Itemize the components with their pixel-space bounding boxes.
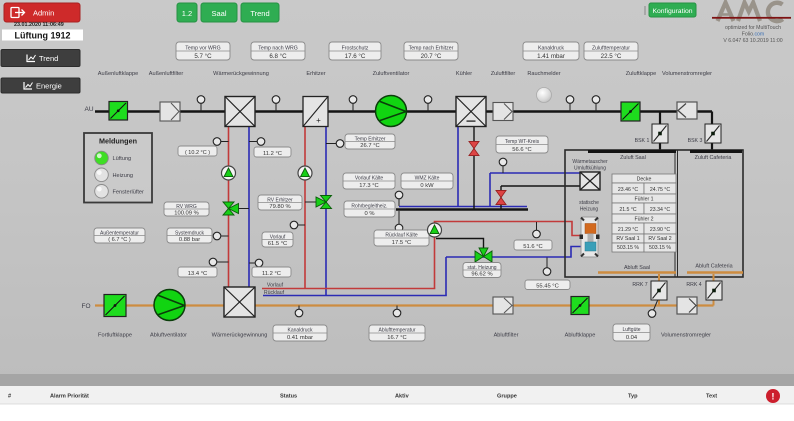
svg-text:Temp nach Erhitzer: Temp nach Erhitzer bbox=[409, 46, 454, 52]
svg-text:11.2 °C: 11.2 °C bbox=[262, 271, 281, 277]
svg-text:Zuluft Cafeteria: Zuluft Cafeteria bbox=[695, 155, 732, 161]
svg-text:51.6 °C: 51.6 °C bbox=[523, 244, 542, 250]
svg-text:1.41 mbar: 1.41 mbar bbox=[537, 53, 565, 60]
svg-text:17.6 °C: 17.6 °C bbox=[345, 53, 366, 60]
svg-text:Zuluftventilator: Zuluftventilator bbox=[373, 71, 410, 77]
svg-text:Abluftfilter: Abluftfilter bbox=[494, 333, 519, 339]
svg-text:Außenluftklappe: Außenluftklappe bbox=[98, 71, 138, 77]
svg-text:6.8 °C: 6.8 °C bbox=[269, 53, 287, 60]
svg-text:23.46 °C: 23.46 °C bbox=[618, 187, 638, 193]
svg-text:Lüftung 1912: Lüftung 1912 bbox=[14, 31, 70, 41]
svg-text:16.7 °C: 16.7 °C bbox=[387, 335, 406, 341]
svg-text:Alarm Priorität: Alarm Priorität bbox=[50, 393, 89, 399]
svg-text:96.62 %: 96.62 % bbox=[471, 272, 492, 278]
svg-text:20.7 °C: 20.7 °C bbox=[421, 53, 442, 60]
svg-text:Wärmetauscher: Wärmetauscher bbox=[572, 159, 608, 165]
svg-text:13.4 °C: 13.4 °C bbox=[188, 271, 207, 277]
svg-text:Typ: Typ bbox=[628, 393, 638, 399]
svg-text:Rücklauf: Rücklauf bbox=[264, 290, 285, 296]
svg-text:RV WRG: RV WRG bbox=[176, 204, 197, 210]
svg-text:24.75 °C: 24.75 °C bbox=[650, 187, 670, 193]
svg-text:Temp nach WRG: Temp nach WRG bbox=[258, 46, 298, 52]
svg-text:( 6.7 °C ): ( 6.7 °C ) bbox=[108, 237, 131, 243]
svg-text:1.2: 1.2 bbox=[182, 9, 192, 18]
svg-text:Wärmerückgewinnung: Wärmerückgewinnung bbox=[212, 333, 268, 339]
svg-text:Heizung: Heizung bbox=[113, 173, 134, 179]
svg-text:0.41 mbar: 0.41 mbar bbox=[287, 335, 313, 341]
svg-text:Ablufttemperatur: Ablufttemperatur bbox=[379, 328, 416, 334]
svg-text:V 6.047 63 10.2019 11:00: V 6.047 63 10.2019 11:00 bbox=[723, 38, 782, 44]
svg-text:Abluftventilator: Abluftventilator bbox=[150, 333, 187, 339]
svg-text:503.15 %: 503.15 % bbox=[617, 245, 639, 251]
svg-text:21.29 °C: 21.29 °C bbox=[618, 227, 638, 233]
svg-text:Saal: Saal bbox=[211, 9, 226, 18]
svg-text:21.5 °C: 21.5 °C bbox=[619, 207, 637, 213]
svg-text:Konfiguration: Konfiguration bbox=[652, 8, 692, 15]
svg-text:79.80 %: 79.80 % bbox=[269, 204, 290, 210]
svg-text:Lüftung: Lüftung bbox=[113, 156, 132, 162]
svg-text:+: + bbox=[316, 116, 321, 125]
svg-text:Trend: Trend bbox=[39, 54, 58, 63]
svg-text:Außenluftfilter: Außenluftfilter bbox=[149, 71, 184, 77]
svg-text:56.6 °C: 56.6 °C bbox=[512, 147, 531, 153]
svg-text:Text: Text bbox=[706, 393, 717, 399]
svg-text:RRK 4: RRK 4 bbox=[686, 282, 701, 288]
svg-text:stat. Heizung: stat. Heizung bbox=[467, 265, 496, 271]
svg-text:0 %: 0 % bbox=[365, 211, 375, 217]
svg-text:23.34 °C: 23.34 °C bbox=[650, 207, 670, 213]
svg-text:( 10.2 °C ): ( 10.2 °C ) bbox=[185, 150, 210, 156]
svg-text:23.90 °C: 23.90 °C bbox=[650, 227, 670, 233]
svg-text:RV Erhitzer: RV Erhitzer bbox=[267, 197, 293, 203]
svg-text:WMZ Kälte: WMZ Kälte bbox=[415, 176, 440, 182]
svg-text:Energie: Energie bbox=[36, 81, 62, 90]
svg-text:Gruppe: Gruppe bbox=[497, 393, 517, 399]
svg-text:Fühler 1: Fühler 1 bbox=[634, 197, 653, 203]
svg-text:Vorlauf Kälte: Vorlauf Kälte bbox=[355, 176, 384, 182]
svg-text:Rohrbegleitheiz.: Rohrbegleitheiz. bbox=[351, 204, 387, 210]
svg-text:55.45 °C: 55.45 °C bbox=[536, 283, 559, 289]
svg-text:61.5 °C: 61.5 °C bbox=[268, 241, 287, 247]
svg-text:0.04: 0.04 bbox=[626, 335, 638, 341]
svg-text:Decke: Decke bbox=[637, 177, 652, 183]
svg-text:Temp WT-Kreis: Temp WT-Kreis bbox=[505, 139, 540, 145]
svg-text:BSK 3: BSK 3 bbox=[688, 138, 703, 144]
svg-text:Aktiv: Aktiv bbox=[395, 393, 410, 399]
svg-text:Folio.com: Folio.com bbox=[742, 32, 765, 38]
svg-text:statische: statische bbox=[579, 200, 599, 206]
svg-text:503.15 %: 503.15 % bbox=[649, 245, 671, 251]
svg-text:23.01.2020 11:06:49: 23.01.2020 11:06:49 bbox=[14, 22, 64, 28]
svg-text:Luftgüte: Luftgüte bbox=[622, 327, 640, 333]
svg-text:0 kW: 0 kW bbox=[420, 183, 434, 189]
svg-text:22.5 °C: 22.5 °C bbox=[601, 53, 622, 60]
svg-text:Heizung: Heizung bbox=[580, 207, 599, 213]
svg-text:Fühler 2: Fühler 2 bbox=[634, 217, 653, 223]
svg-text:Rücklauf Kälte: Rücklauf Kälte bbox=[385, 233, 417, 239]
svg-text:Wärmerückgewinnung: Wärmerückgewinnung bbox=[213, 71, 269, 77]
svg-text:26.7 °C: 26.7 °C bbox=[360, 143, 379, 149]
svg-text:0.88 bar: 0.88 bar bbox=[179, 237, 200, 243]
svg-text:Kanaldruck: Kanaldruck bbox=[287, 328, 313, 334]
svg-text:17.5 °C: 17.5 °C bbox=[392, 240, 411, 246]
svg-text:AU: AU bbox=[84, 106, 93, 113]
svg-text:Rauchmelder: Rauchmelder bbox=[527, 71, 560, 77]
svg-text:Fensterlüfter: Fensterlüfter bbox=[113, 190, 145, 196]
svg-text:5.7 °C: 5.7 °C bbox=[194, 53, 212, 60]
svg-text:Vorlauf: Vorlauf bbox=[270, 234, 286, 240]
svg-text:Trend: Trend bbox=[250, 9, 269, 18]
svg-text:17.3 °C: 17.3 °C bbox=[359, 183, 378, 189]
svg-text:Umluftkühlung: Umluftkühlung bbox=[574, 166, 606, 172]
svg-text:100.09 %: 100.09 % bbox=[174, 210, 199, 216]
svg-text:Vorlauf: Vorlauf bbox=[267, 283, 284, 289]
svg-text:FO: FO bbox=[81, 303, 90, 310]
svg-text:Volumenstromregler: Volumenstromregler bbox=[661, 333, 711, 339]
svg-text:!: ! bbox=[771, 392, 774, 403]
svg-text:RV Saal 2: RV Saal 2 bbox=[648, 236, 671, 242]
svg-text:Systemdruck: Systemdruck bbox=[175, 230, 204, 236]
svg-text:optimized for MultiTouch: optimized for MultiTouch bbox=[725, 25, 781, 31]
svg-text:Kanaldruck: Kanaldruck bbox=[538, 46, 564, 52]
svg-text:Temp Erhitzer: Temp Erhitzer bbox=[355, 136, 386, 142]
svg-text:Zuluftfilter: Zuluftfilter bbox=[491, 71, 516, 77]
svg-text:Admin: Admin bbox=[33, 9, 54, 18]
svg-text:RRK 7: RRK 7 bbox=[632, 282, 647, 288]
svg-text:Zuluft Saal: Zuluft Saal bbox=[620, 155, 646, 161]
svg-text:Abluft Cafeteria: Abluft Cafeteria bbox=[695, 264, 732, 270]
svg-text:Fortluftklappe: Fortluftklappe bbox=[98, 333, 132, 339]
svg-text:Meldungen: Meldungen bbox=[99, 137, 137, 146]
svg-text:Abluftklappe: Abluftklappe bbox=[565, 333, 596, 339]
svg-text:Abluft Saal: Abluft Saal bbox=[624, 265, 650, 271]
svg-text:RV Saal 1: RV Saal 1 bbox=[616, 236, 639, 242]
svg-text:Volumenstromregler: Volumenstromregler bbox=[662, 71, 712, 77]
svg-text:Zuluftklappe: Zuluftklappe bbox=[626, 71, 656, 77]
svg-text:Erhitzer: Erhitzer bbox=[306, 71, 325, 77]
svg-text:Frostschutz: Frostschutz bbox=[342, 46, 369, 52]
svg-text:Temp vor WRG: Temp vor WRG bbox=[185, 46, 220, 52]
svg-text:Zulufttemperatur: Zulufttemperatur bbox=[592, 46, 630, 52]
svg-text:Außentemperatur: Außentemperatur bbox=[100, 230, 139, 236]
svg-text:Kühler: Kühler bbox=[456, 71, 472, 77]
svg-text:Status: Status bbox=[280, 393, 297, 399]
svg-text:11.2 °C: 11.2 °C bbox=[263, 151, 282, 157]
svg-text:BSK 1: BSK 1 bbox=[635, 138, 650, 144]
